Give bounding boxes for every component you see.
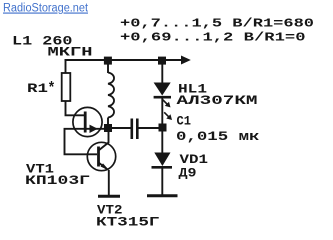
- svg-text:Д9: Д9: [179, 167, 197, 181]
- wire: node C down to VD1: [161, 131, 163, 153]
- VT1 gate lead with arrow (to node A): [85, 128, 104, 130]
- node B (top of L1): [104, 57, 112, 65]
- VT2 emitter lead with arrow: [99, 163, 108, 170]
- svg-text:*: *: [48, 80, 56, 98]
- svg-text:0,015 мк: 0,015 мк: [176, 130, 260, 144]
- svg-text:АЛ307КМ: АЛ307КМ: [177, 94, 258, 108]
- node A (L1/VT1/C1/VT2 junction): [104, 124, 112, 132]
- LED HL1 triangle: [154, 83, 171, 96]
- wire: VT2 emitter to ground: [108, 170, 110, 195]
- wire: R1 top lead: [65, 59, 67, 73]
- svg-text:RadioStorage.net: RadioStorage.net: [3, 3, 89, 15]
- svg-text:КП103Г: КП103Г: [25, 174, 90, 188]
- capacitor C1 plates: [131, 119, 134, 140]
- svg-text:+0,7...1,5 В/R1=680: +0,7...1,5 В/R1=680: [120, 17, 314, 31]
- wire: C1 to node C: [139, 127, 161, 129]
- output arrow (right end of top rail): [181, 56, 191, 65]
- wire: R1 bottom lead to VT1 upper lead: [66, 101, 86, 115]
- wire: HL1 cathode to node C: [161, 98, 163, 124]
- wire: HL1 anode lead: [161, 60, 163, 83]
- svg-text:C1: C1: [177, 115, 192, 129]
- VT2 collector lead: [99, 132, 109, 151]
- diode VD1 triangle: [154, 153, 170, 167]
- wire: VD1 to ground: [161, 168, 163, 195]
- svg-text:МКГН: МКГН: [48, 46, 93, 60]
- svg-text:VD1: VD1: [180, 153, 209, 167]
- wire: top supply rail: [65, 59, 184, 61]
- svg-text:R1: R1: [27, 82, 48, 96]
- VD1 cathode bar: [152, 166, 173, 169]
- node C (C1/HL1/VD1 junction): [159, 124, 167, 132]
- HL1 emission arrow 2: [164, 112, 169, 117]
- wire: VT1 lower-left lead down to VT2 base: [65, 129, 98, 155]
- resistor R1: [62, 73, 71, 101]
- wire: L1 bottom stub: [107, 118, 109, 129]
- node D (top of HL1): [158, 57, 166, 65]
- HL1 cathode bar: [154, 96, 171, 99]
- inductor L1 (4 arcs): [108, 73, 114, 118]
- svg-text:+0,69...1,2 В/R1=0: +0,69...1,2 В/R1=0: [120, 31, 306, 45]
- wire: node A to C1: [112, 127, 131, 129]
- VT1 channel bar: [84, 112, 87, 133]
- svg-text:КТ315Г: КТ315Г: [96, 216, 160, 230]
- transistor VT1 (JFET KP103G) circle: [73, 107, 102, 136]
- VT2 base bar: [97, 147, 100, 167]
- HL1 emission arrow 1: [163, 100, 168, 105]
- ground (VD1): [147, 194, 178, 197]
- transistor VT2 (KT315G) circle: [87, 142, 115, 170]
- wire: L1 top stub: [107, 60, 109, 73]
- ground (VT2): [98, 195, 120, 198]
